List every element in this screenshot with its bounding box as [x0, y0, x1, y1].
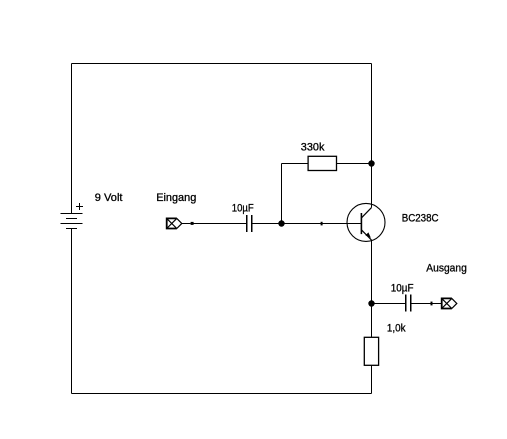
svg-text:10µF: 10µF: [391, 283, 414, 295]
pin end marker output: [431, 302, 433, 306]
wire base node to transistor base: [282, 223, 362, 225]
wire bottom rail: [72, 393, 372, 395]
wire left rail lower (battery - to bottom rail): [71, 229, 73, 394]
pin end marker base wire: [321, 222, 323, 226]
pin end marker input: [191, 222, 194, 225]
wire emitter branch: [371, 240, 373, 337]
wire R2 to bottom rail: [371, 365, 373, 393]
wire right rail collector branch: [371, 64, 373, 208]
svg-text:1,0k: 1,0k: [387, 323, 406, 335]
resistor R2 1,0k: [364, 337, 378, 365]
junction emitter output node: [368, 300, 374, 306]
junction base node: [278, 220, 284, 226]
wire feedback drop: [281, 164, 283, 224]
resistor R1 330k: [308, 156, 336, 170]
connector X1 Eingang: [167, 218, 182, 228]
wire C1 to base node: [252, 223, 281, 225]
svg-text:Ausgang: Ausgang: [426, 263, 467, 275]
connector X2 Ausgang: [442, 298, 457, 308]
wire R1 to collector node: [337, 163, 372, 165]
wire output node to C2: [372, 303, 406, 305]
capacitor C2 10µF: [406, 295, 411, 312]
capacitor C1 10µF: [247, 215, 252, 232]
svg-text:BC238C: BC238C: [402, 213, 439, 225]
wire left rail upper (top rail to battery +): [71, 64, 73, 214]
svg-text:9 Volt: 9 Volt: [95, 192, 123, 204]
svg-text:330k: 330k: [301, 142, 325, 154]
svg-text:10µF: 10µF: [232, 202, 254, 214]
wire input pin stub: [182, 223, 191, 225]
wire feedback drop to R1: [282, 163, 309, 165]
transistor Q1 BC238C: [347, 203, 385, 241]
svg-text:Eingang: Eingang: [156, 192, 196, 204]
wire top rail: [72, 63, 372, 65]
wire input to C1: [194, 223, 247, 225]
battery B1 9 Volt: [61, 203, 83, 229]
junction collector node: [368, 160, 374, 166]
wire C2 to output pin: [411, 303, 441, 305]
